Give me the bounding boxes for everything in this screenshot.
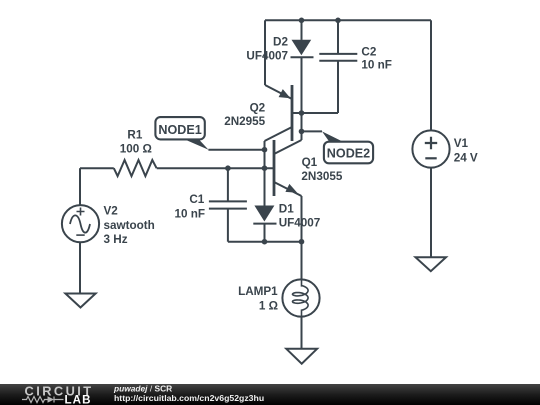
diode D2 triangle <box>292 40 312 56</box>
voltage source V1 <box>412 130 449 167</box>
svg-text:LAB: LAB <box>65 394 92 405</box>
wire V1 bottom lead <box>430 168 432 258</box>
ground (V1) <box>416 257 447 271</box>
capacitor C2 bottom lead <box>337 61 339 113</box>
svg-text:10 nF: 10 nF <box>361 59 392 72</box>
svg-text:D2: D2 <box>273 35 288 48</box>
footer credit text <box>113 383 264 403</box>
svg-text:D1: D1 <box>279 203 294 216</box>
wire top rail <box>265 19 431 21</box>
svg-text:R1: R1 <box>127 128 142 141</box>
diode D2 anode lead <box>301 20 303 40</box>
junction D2 anode / top rail <box>299 18 305 24</box>
svg-text:100 Ω: 100 Ω <box>120 143 152 156</box>
transistor Q1 emitter lead <box>274 182 302 196</box>
capacitor C2 top lead <box>337 20 339 54</box>
wire V2 to R1 <box>80 167 114 169</box>
V2 plus <box>77 208 85 216</box>
svg-text:2N3055: 2N3055 <box>301 170 342 183</box>
wire Q1 emitter drop <box>301 196 303 242</box>
wire V1 top drop <box>430 20 432 130</box>
wire V2 top lead <box>79 168 81 205</box>
svg-text:10 nF: 10 nF <box>174 207 205 220</box>
diode D1 cathode bar <box>253 223 276 225</box>
svg-text:24 V: 24 V <box>454 152 478 165</box>
wire node A vertical (Q2 collector / Q1 base / D1) <box>264 141 266 206</box>
junction Q1 base / D1 anode branch <box>262 165 268 171</box>
wire NODE2 stub <box>302 130 323 132</box>
svg-text:Q1: Q1 <box>302 156 318 169</box>
V2 sine glyph <box>70 215 90 232</box>
footer bar <box>0 384 540 405</box>
svg-text:UF4007: UF4007 <box>279 217 321 230</box>
svg-text:http://circuitlab.com/cn2v6g52: http://circuitlab.com/cn2v6g52gz3hu <box>114 393 264 403</box>
capacitor C1 top lead <box>227 168 229 201</box>
resistor R1 <box>114 160 157 176</box>
CircuitLab logo wordmark <box>22 384 94 405</box>
transistor Q1 emitter arrow <box>285 184 297 193</box>
wire bottom rail <box>228 241 302 243</box>
logo schematic glyph <box>22 397 64 403</box>
junction D1 cathode / bottom rail <box>262 239 268 245</box>
wire Q2 base to C2 <box>292 112 338 114</box>
wire V2 bottom lead <box>79 242 81 293</box>
svg-text:3 Hz: 3 Hz <box>104 233 128 246</box>
diode D2 cathode bar <box>291 56 314 58</box>
lamp LAMP1 <box>282 279 319 316</box>
ground (lamp) <box>286 349 317 364</box>
wire Q2 emitter drop <box>264 20 266 85</box>
junction C2 / top rail <box>335 18 341 24</box>
svg-text:Q2: Q2 <box>250 102 266 115</box>
junction Q1 emitter / lamp <box>299 239 305 245</box>
diode D1 cathode lead <box>264 224 266 242</box>
junction NODE1 / Q2 collector <box>262 147 268 153</box>
diode D2 cathode vertical wire <box>301 57 303 140</box>
wire R1 to Q1 base <box>157 167 274 169</box>
NODE2 pointer <box>322 131 345 142</box>
junction Q2 base / D2 cathode <box>299 110 305 116</box>
transistor Q1 collector lead <box>274 140 302 154</box>
lamp LAMP1 filament <box>293 279 309 316</box>
junction NODE2 / Q1 collector <box>299 129 305 135</box>
node NODE2 callout <box>324 142 373 164</box>
svg-text:puwadej / SCR: puwadej / SCR <box>113 383 172 393</box>
svg-text:NODE1: NODE1 <box>158 123 201 137</box>
transistor Q2 base bar <box>291 85 294 141</box>
svg-text:V2: V2 <box>104 205 119 218</box>
ground (V2) <box>65 294 95 308</box>
svg-text:UF4007: UF4007 <box>246 50 288 63</box>
wire lamp top <box>301 242 303 280</box>
capacitor C2 plates <box>319 54 357 61</box>
voltage source V2 <box>62 205 99 242</box>
svg-text:NODE2: NODE2 <box>327 147 370 161</box>
svg-text:sawtooth: sawtooth <box>104 219 155 232</box>
svg-text:LAMP1: LAMP1 <box>238 285 278 298</box>
V1 minus <box>425 157 436 159</box>
wire lamp bottom <box>301 317 303 349</box>
capacitor C1 bottom lead <box>227 209 229 242</box>
transistor Q2 emitter arrow <box>279 89 291 98</box>
svg-text:1 Ω: 1 Ω <box>259 299 278 312</box>
svg-text:V1: V1 <box>454 137 469 150</box>
V1 plus <box>425 137 437 149</box>
diode D1 triangle <box>254 206 274 222</box>
NODE1 pointer <box>184 139 209 150</box>
V2 minus <box>76 234 84 236</box>
transistor Q1 base bar <box>273 140 276 196</box>
capacitor C1 plates <box>209 201 247 208</box>
svg-text:C1: C1 <box>189 193 204 206</box>
node NODE1 callout <box>155 117 204 139</box>
svg-text:C2: C2 <box>361 45 376 58</box>
transistor Q2 collector lead <box>265 127 293 141</box>
junction C1 / base wire <box>225 165 231 171</box>
wire NODE1 stub <box>208 149 264 151</box>
svg-text:2N2955: 2N2955 <box>224 115 265 128</box>
transistor Q2 emitter lead <box>265 85 292 99</box>
